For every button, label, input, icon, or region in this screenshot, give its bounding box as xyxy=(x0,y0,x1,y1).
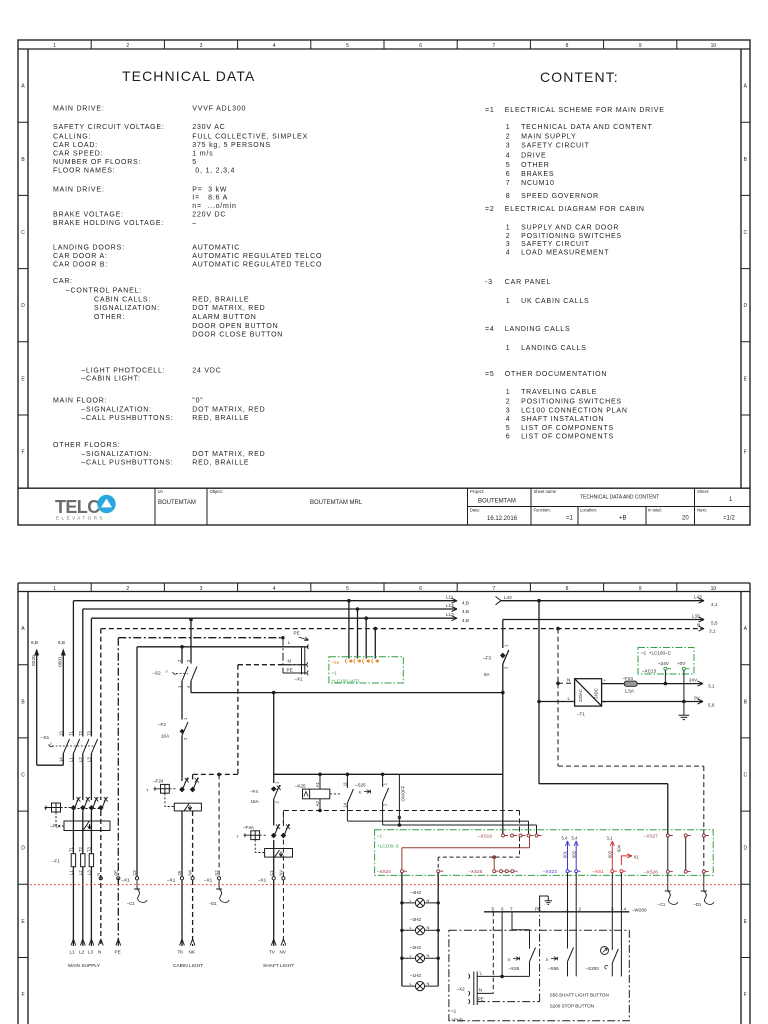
0V rail xyxy=(602,701,703,703)
svg-text:–XS26: –XS26 xyxy=(644,870,658,875)
svg-text:TV: TV xyxy=(269,950,276,955)
wire 0220 to sheet 6,B xyxy=(34,649,39,766)
svg-text:T3: T3 xyxy=(86,730,91,736)
svg-text:6A: 6A xyxy=(484,672,491,677)
svg-text:n= ...o/min: n= ...o/min xyxy=(192,203,236,210)
svg-text:E: E xyxy=(359,790,362,795)
technical data list labels xyxy=(53,106,322,467)
svg-text:N: N xyxy=(697,623,700,628)
svg-text:CABIN LIGHT: CABIN LIGHT xyxy=(173,963,203,969)
svg-text:+: + xyxy=(604,678,607,683)
svg-text:S200 STOP BUTTON: S200 STOP BUTTON xyxy=(550,1003,594,1008)
title block grid xyxy=(155,488,750,525)
svg-text:UK CABIN CALLS: UK CABIN CALLS xyxy=(521,298,589,305)
bus junction dots xyxy=(318,773,384,777)
svg-text:L3: L3 xyxy=(88,950,94,955)
svg-text:+0V: +0V xyxy=(677,661,686,666)
svg-text:SUPPLY AND CAR DOOR: SUPPLY AND CAR DOOR xyxy=(521,225,619,232)
svg-text:DOOR OPEN BUTTON: DOOR OPEN BUTTON xyxy=(192,323,278,330)
svg-text:N: N xyxy=(427,953,430,958)
TELCO logo xyxy=(55,495,116,521)
svg-text:–XS24: –XS24 xyxy=(377,869,391,874)
svg-text:T1: T1 xyxy=(68,730,73,736)
svg-text:ELECTRICAL DIAGRAM FOR CABIN: ELECTRICAL DIAGRAM FOR CABIN xyxy=(505,206,645,213)
lamp ladder rails xyxy=(402,873,438,986)
svg-text:RED, BRAILLE: RED, BRAILLE xyxy=(192,460,249,467)
svg-text:24V: 24V xyxy=(689,678,698,683)
svg-text:OTHER FLOORS:: OTHER FLOORS: xyxy=(53,442,121,449)
breaker F4 xyxy=(274,785,280,799)
svg-text:L: L xyxy=(568,696,571,701)
shaft light arrows xyxy=(271,939,286,946)
svg-text:ELECTRICAL SCHEME FOR MAIN DRI: ELECTRICAL SCHEME FOR MAIN DRIVE xyxy=(505,107,665,114)
svg-text:NV: NV xyxy=(280,950,287,955)
switch S56 xyxy=(568,948,574,962)
svg-text:N: N xyxy=(427,981,430,986)
svg-text:8: 8 xyxy=(566,43,569,49)
svg-text:In total:: In total: xyxy=(648,508,662,513)
svg-text:SIGNALIZATION:: SIGNALIZATION: xyxy=(94,305,160,312)
cabin light arrows xyxy=(180,939,195,946)
svg-text:+B: +B xyxy=(619,516,627,522)
svg-text:Next:: Next: xyxy=(697,508,707,513)
svg-text:–: – xyxy=(192,220,197,227)
red separator line xyxy=(30,884,741,886)
svg-text:N: N xyxy=(98,950,101,955)
svg-text:VVVF ADL300: VVVF ADL300 xyxy=(192,106,246,113)
svg-text:TECHNICAL DATA: TECHNICAL DATA xyxy=(122,68,255,84)
svg-text:220V DC: 220V DC xyxy=(192,212,226,219)
PSU connector XC13 green box xyxy=(638,648,694,675)
svg-text:–2H2: –2H2 xyxy=(410,945,421,950)
svg-text:TECHNICAL DATA AND CONTENT: TECHNICAL DATA AND CONTENT xyxy=(580,495,659,501)
svg-text:B: B xyxy=(21,699,25,705)
wire L1 xyxy=(73,598,457,946)
svg-text:ON/OFF: ON/OFF xyxy=(401,785,406,801)
breaker F3 xyxy=(503,620,509,693)
N distribution dashed to K25 xyxy=(283,811,519,834)
svg-text:2: 2 xyxy=(506,233,511,240)
svg-text:E: E xyxy=(21,376,25,382)
svg-text:OTHER DOCUMENTATION: OTHER DOCUMENTATION xyxy=(505,371,607,378)
svg-text:DOT MATRIX, RED: DOT MATRIX, RED xyxy=(192,305,265,312)
svg-text:ELEVATORS: ELEVATORS xyxy=(56,516,105,521)
title block texts xyxy=(158,489,710,513)
svg-text:1: 1 xyxy=(506,345,511,352)
svg-text:3: 3 xyxy=(186,659,191,662)
svg-text:P= 3 kW: P= 3 kW xyxy=(192,187,227,194)
svg-text:BRAKE VOLTAGE:: BRAKE VOLTAGE: xyxy=(53,212,124,219)
terminal block X1 machine room xyxy=(283,638,309,676)
svg-text:L: L xyxy=(410,981,413,986)
svg-text:SHAFT LIGHT: SHAFT LIGHT xyxy=(263,963,294,969)
svg-text:3,1: 3,1 xyxy=(709,629,716,634)
switch S26 xyxy=(530,948,536,962)
svg-text:L3: L3 xyxy=(86,870,91,875)
svg-text:L43: L43 xyxy=(504,595,512,600)
svg-text:3: 3 xyxy=(200,586,203,592)
svg-text:T1: T1 xyxy=(68,846,73,852)
svg-text:F: F xyxy=(21,992,24,998)
svg-text:T: T xyxy=(146,788,149,793)
svg-text:–P14: –P14 xyxy=(50,824,61,829)
svg-text:=2: =2 xyxy=(485,206,495,213)
svg-text:BRAKE HOLDING VOLTAGE:: BRAKE HOLDING VOLTAGE: xyxy=(53,220,164,227)
svg-text:=1: =1 xyxy=(451,1009,457,1014)
svg-text:L11: L11 xyxy=(446,595,454,600)
svg-text:Sheet:: Sheet: xyxy=(697,489,709,494)
svg-text:L1: L1 xyxy=(70,950,76,955)
svg-text:C: C xyxy=(743,773,747,779)
svg-text:–F1: –F1 xyxy=(52,859,60,864)
svg-text:14: 14 xyxy=(58,757,63,762)
svg-text:A2: A2 xyxy=(315,801,320,807)
svg-text:A1: A1 xyxy=(315,782,320,788)
24V rail with fuse F24 xyxy=(602,683,703,685)
wire PE (dash-dot) xyxy=(118,638,283,946)
svg-text:604: 604 xyxy=(616,844,621,852)
svg-text:C: C xyxy=(21,773,25,779)
light feed branch xyxy=(273,693,275,946)
svg-text:–C1: –C1 xyxy=(658,902,666,907)
svg-text:Project:: Project: xyxy=(470,489,484,494)
junction dots top buses xyxy=(217,599,560,776)
svg-text:–XS23: –XS23 xyxy=(543,869,557,874)
switch ON/OFF xyxy=(398,774,400,825)
svg-text:D: D xyxy=(743,846,747,852)
page 1 column numbers xyxy=(53,43,716,49)
svg-text:5,4: 5,4 xyxy=(562,836,568,841)
svg-text:=4: =4 xyxy=(485,326,495,333)
svg-text:Sheet name: Sheet name xyxy=(534,489,557,494)
svg-text:7: 7 xyxy=(492,43,495,49)
svg-text:4,B: 4,B xyxy=(462,618,469,623)
svg-text:NUMBER OF FLOORS:: NUMBER OF FLOORS: xyxy=(53,159,141,166)
svg-text:BOUTEMTAM: BOUTEMTAM xyxy=(158,500,196,506)
svg-text:6: 6 xyxy=(501,906,504,911)
cable tail W1 xyxy=(134,880,147,902)
wire 0501 to sheet 6,B xyxy=(37,649,66,766)
svg-text:E: E xyxy=(508,957,511,962)
svg-text:8: 8 xyxy=(506,193,511,200)
svg-text:MAIN DRIVE:: MAIN DRIVE: xyxy=(53,106,105,113)
svg-text:LANDING DOORS:: LANDING DOORS: xyxy=(53,245,125,252)
svg-text:N: N xyxy=(427,898,430,903)
svg-text:PE: PE xyxy=(535,906,541,911)
svg-text:–F24: –F24 xyxy=(623,676,634,681)
X1 terminal N2 + cable xyxy=(218,774,220,876)
svg-text:5: 5 xyxy=(506,162,511,169)
svg-text:603: 603 xyxy=(607,850,612,858)
svg-text:–D1: –D1 xyxy=(209,901,217,906)
svg-text:2: 2 xyxy=(183,737,188,740)
svg-text:3,1: 3,1 xyxy=(711,602,718,607)
svg-text:14: 14 xyxy=(342,802,347,807)
svg-text:6: 6 xyxy=(506,434,511,441)
svg-text:X1: X1 xyxy=(634,855,640,860)
svg-text:CALLING:: CALLING: xyxy=(53,134,91,141)
terminal X2 xyxy=(469,972,530,1006)
svg-text:1: 1 xyxy=(383,782,388,785)
svg-text:–X1: –X1 xyxy=(204,878,213,883)
svg-text:=1/2: =1/2 xyxy=(723,516,736,522)
svg-text:N2: N2 xyxy=(214,870,219,876)
svg-text:–LIGHT PHOTOCELL:: –LIGHT PHOTOCELL: xyxy=(81,368,165,375)
svg-text:230V AC: 230V AC xyxy=(192,124,225,131)
wire L3 xyxy=(91,616,457,946)
svg-text:24 VDC: 24 VDC xyxy=(192,368,221,375)
svg-text:2: 2 xyxy=(275,801,280,804)
svg-text:3: 3 xyxy=(506,241,511,248)
breaker F2 xyxy=(182,693,188,781)
svg-text:13: 13 xyxy=(58,731,63,736)
svg-text:T2: T2 xyxy=(78,730,83,736)
svg-text:L2: L2 xyxy=(78,757,83,762)
svg-text:–X1: –X1 xyxy=(295,677,304,682)
svg-text:1: 1 xyxy=(53,43,56,49)
svg-text:E: E xyxy=(546,957,549,962)
svg-text:L: L xyxy=(288,640,291,645)
wires XS27 to XS26 xyxy=(668,837,686,870)
VFD connector box X6 xyxy=(329,657,403,683)
svg-text:4: 4 xyxy=(506,250,511,257)
aux contact K25 xyxy=(347,774,528,834)
svg-text:24DC: 24DC xyxy=(594,688,599,699)
svg-text:1,5A: 1,5A xyxy=(625,689,635,694)
svg-text:–K25: –K25 xyxy=(295,784,306,789)
svg-text:MAIN FLOOR:: MAIN FLOOR: xyxy=(53,398,107,405)
svg-text:CAR LOAD:: CAR LOAD: xyxy=(53,142,98,149)
wire NV dashed xyxy=(282,811,284,947)
svg-text:L: L xyxy=(410,898,413,903)
svg-text:SHAFT INSTALATION: SHAFT INSTALATION xyxy=(521,416,604,423)
svg-text:1: 1 xyxy=(729,497,733,503)
svg-text:0V: 0V xyxy=(694,696,701,701)
stop switch S25 xyxy=(364,774,537,834)
svg-text:CAR SPEED:: CAR SPEED: xyxy=(53,151,103,158)
svg-text:–S25: –S25 xyxy=(355,783,366,788)
svg-text:+LC100–S: +LC100–S xyxy=(377,844,399,849)
svg-text:=1: =1 xyxy=(485,107,495,114)
svg-text:1: 1 xyxy=(275,781,280,784)
svg-text:10: 10 xyxy=(711,43,717,49)
svg-text:6: 6 xyxy=(419,586,422,592)
svg-text:LOAD MEASUREMENT: LOAD MEASUREMENT xyxy=(521,250,609,257)
svg-text:+PVD: +PVD xyxy=(451,1018,464,1023)
svg-text:LIST OF COMPONENTS: LIST OF COMPONENTS xyxy=(521,425,614,432)
svg-text:–X1: –X1 xyxy=(167,878,176,883)
controller box LC100-S xyxy=(375,830,714,876)
svg-text:-3: -3 xyxy=(485,279,493,286)
svg-text:ALARM BUTTON: ALARM BUTTON xyxy=(192,314,256,321)
svg-text:2: 2 xyxy=(177,659,182,662)
svg-text:A: A xyxy=(21,84,25,90)
svg-text:Date:: Date: xyxy=(470,508,480,513)
N dashed box around T1 xyxy=(558,629,704,834)
svg-text:CAR PANEL: CAR PANEL xyxy=(505,279,551,286)
wires car panel to W200 xyxy=(568,873,622,912)
svg-text:375 kg, 5 PERSONS: 375 kg, 5 PERSONS xyxy=(192,142,271,149)
svg-text:1: 1 xyxy=(504,644,509,647)
svg-text:10A: 10A xyxy=(161,734,170,739)
wires from XC13 xyxy=(664,670,666,683)
svg-text:3,1: 3,1 xyxy=(607,836,613,841)
svg-text:LIST OF COMPONENTS: LIST OF COMPONENTS xyxy=(521,434,614,441)
svg-text:Location:: Location: xyxy=(580,508,597,513)
svg-text:MAIN DRIVE:: MAIN DRIVE: xyxy=(53,187,105,194)
svg-text:E: E xyxy=(744,919,748,925)
svg-text:–D1: –D1 xyxy=(694,902,702,907)
page 2 row letters xyxy=(21,626,747,998)
wire N (dashed) xyxy=(101,629,700,946)
svg-text:TK: TK xyxy=(178,950,185,955)
svg-text:E: E xyxy=(744,376,748,382)
svg-text:4: 4 xyxy=(624,906,627,911)
svg-text:C: C xyxy=(743,230,747,236)
box PVD xyxy=(449,930,629,1021)
wire L2 xyxy=(83,607,457,947)
svg-text:BOUTEMTAM MRL: BOUTEMTAM MRL xyxy=(310,500,363,506)
svg-text:A: A xyxy=(744,626,748,632)
svg-text:T: T xyxy=(237,834,240,839)
svg-text:Function:: Function: xyxy=(534,508,551,513)
svg-text:1: 1 xyxy=(506,124,511,131)
svg-text:L: L xyxy=(410,925,413,930)
svg-text:CAR:: CAR: xyxy=(53,278,73,285)
svg-text:7: 7 xyxy=(492,586,495,592)
svg-text:TELC: TELC xyxy=(55,497,100,517)
svg-text:N: N xyxy=(427,925,430,930)
svg-text:–SIGNALIZATION:: –SIGNALIZATION: xyxy=(81,407,152,414)
svg-text:PE: PE xyxy=(294,631,300,636)
svg-text:PE: PE xyxy=(113,870,118,876)
svg-text:I= 8.6 A: I= 8.6 A xyxy=(192,195,228,202)
svg-text:D: D xyxy=(21,846,25,852)
svg-text:–F24: –F24 xyxy=(153,779,164,784)
svg-text:5: 5 xyxy=(506,425,511,432)
svg-text:=1: =1 xyxy=(566,516,574,522)
svg-text:POSITIONING SWITCHES: POSITIONING SWITCHES xyxy=(521,233,622,240)
transformer T1 xyxy=(575,679,602,706)
svg-text:–CALL PUSHBUTTONS:: –CALL PUSHBUTTONS: xyxy=(81,415,173,422)
ground at W200 PE xyxy=(540,896,552,912)
svg-text:L1: L1 xyxy=(68,870,73,875)
svg-text:"0": "0" xyxy=(192,398,203,405)
svg-text:25: 25 xyxy=(177,870,182,875)
svg-text:DOT MATRIX, RED: DOT MATRIX, RED xyxy=(192,407,265,414)
svg-text:OTHER:: OTHER: xyxy=(94,314,125,321)
svg-text:PE: PE xyxy=(115,950,121,955)
svg-text:RED, BRAILLE: RED, BRAILLE xyxy=(192,415,249,422)
svg-text:1: 1 xyxy=(53,586,56,592)
cable W200 terminal strip xyxy=(484,911,629,913)
svg-text:5,5: 5,5 xyxy=(711,621,718,626)
svg-text:L12: L12 xyxy=(446,603,454,608)
svg-text:5,6: 5,6 xyxy=(708,703,715,708)
svg-text:Object:: Object: xyxy=(210,489,223,494)
svg-text:–F4A: –F4A xyxy=(243,825,255,830)
svg-text:–X6: –X6 xyxy=(331,660,340,665)
svg-text:J: J xyxy=(50,741,52,746)
svg-text:0501: 0501 xyxy=(58,656,64,667)
wire L43 vertical xyxy=(539,601,668,834)
main switch S2 xyxy=(173,620,198,693)
svg-text:601: 601 xyxy=(563,850,568,858)
wire N to X1 (dashed) xyxy=(193,665,283,782)
svg-text:16.12.2016: 16.12.2016 xyxy=(487,516,518,522)
svg-text:Un: Un xyxy=(158,489,164,494)
svg-text:TECHNICAL DATA AND CONTENT: TECHNICAL DATA AND CONTENT xyxy=(521,124,653,131)
svg-text:=1: =1 xyxy=(332,670,338,675)
svg-text:E: E xyxy=(21,919,25,925)
svg-text:602: 602 xyxy=(571,850,576,858)
svg-text:6: 6 xyxy=(419,43,422,49)
svg-text:PE: PE xyxy=(478,997,484,1002)
svg-text:6: 6 xyxy=(506,171,511,178)
svg-text:4: 4 xyxy=(273,43,276,49)
svg-text:SAFETY CIRCUIT VOLTAGE:: SAFETY CIRCUIT VOLTAGE: xyxy=(53,124,165,131)
drop wires to X6 xyxy=(349,601,375,659)
svg-text:16A: 16A xyxy=(251,799,260,804)
svg-text:CAR DOOR A:: CAR DOOR A: xyxy=(53,253,108,260)
wire L43 xyxy=(496,597,705,605)
L stub to T1 xyxy=(539,701,575,703)
svg-text:3,1: 3,1 xyxy=(708,684,715,689)
svg-text:–SIGNALIZATION:: –SIGNALIZATION: xyxy=(81,451,152,458)
svg-text:4: 4 xyxy=(506,416,511,423)
svg-text:8: 8 xyxy=(566,586,569,592)
svg-text:4,B: 4,B xyxy=(462,609,469,614)
svg-text:L1: L1 xyxy=(68,757,73,762)
brown harness wires xyxy=(402,837,530,870)
page 1 sheet frame xyxy=(18,40,750,525)
svg-text:–F2: –F2 xyxy=(158,722,166,727)
breaker F4A shaft light xyxy=(244,824,293,857)
svg-text:0, 1, 2,3,4: 0, 1, 2,3,4 xyxy=(195,168,235,175)
svg-text:–1H2: –1H2 xyxy=(410,973,421,978)
svg-text:9: 9 xyxy=(639,43,642,49)
lamp 2H2 xyxy=(402,954,438,963)
svg-text:4: 4 xyxy=(506,152,511,159)
svg-text:4: 4 xyxy=(186,685,191,688)
wire NK dashed xyxy=(192,811,194,946)
svg-text:+24V: +24V xyxy=(658,661,670,666)
svg-text:N: N xyxy=(479,988,482,993)
wire TK xyxy=(181,811,183,946)
svg-text:=1 +LC100–C: =1 +LC100–C xyxy=(641,651,672,656)
cable tails below XS26 xyxy=(665,873,678,904)
svg-text:AUTOMATIC: AUTOMATIC xyxy=(192,245,240,252)
svg-text:BOUTEMTAM: BOUTEMTAM xyxy=(478,499,516,505)
main switch S1 xyxy=(49,739,98,754)
wire L33 xyxy=(503,617,704,622)
svg-text:1: 1 xyxy=(177,685,182,688)
svg-text:NCUM10: NCUM10 xyxy=(521,180,555,187)
svg-text:1: 1 xyxy=(183,717,188,720)
svg-text:LANDING CALLS: LANDING CALLS xyxy=(505,326,571,333)
svg-text:AUTOMATIC REGULATED TELCO: AUTOMATIC REGULATED TELCO xyxy=(192,253,322,260)
X1 terminals N PE xyxy=(99,877,102,880)
svg-text:2: 2 xyxy=(579,906,582,911)
svg-text:D: D xyxy=(21,303,25,309)
svg-text:–S1: –S1 xyxy=(41,735,50,740)
svg-text:=5: =5 xyxy=(485,371,495,378)
svg-text:CABIN CALLS:: CABIN CALLS: xyxy=(94,297,151,304)
svg-text:–F3: –F3 xyxy=(483,656,491,661)
svg-text:S56 SHAFT LIGHT BUTTON: S56 SHAFT LIGHT BUTTON xyxy=(550,992,609,997)
svg-text:2: 2 xyxy=(126,586,129,592)
wire L bus y692 xyxy=(191,692,503,694)
